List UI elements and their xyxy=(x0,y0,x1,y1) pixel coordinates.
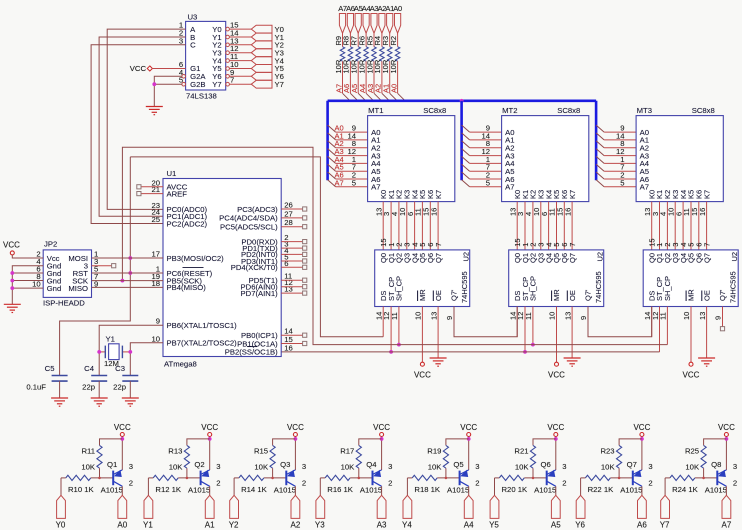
svg-text:A1015: A1015 xyxy=(101,485,123,494)
wire MT2.K5 to U2.Q5 xyxy=(556,202,558,250)
svg-text:R12 1K: R12 1K xyxy=(155,485,182,494)
wire U3.Y2 to port xyxy=(229,44,251,46)
svg-text:SC8x8: SC8x8 xyxy=(692,106,715,115)
svg-text:R10 1K: R10 1K xyxy=(68,485,95,494)
power VCC (cell 5) xyxy=(547,423,564,437)
svg-text:10: 10 xyxy=(414,312,423,320)
bus entry xyxy=(328,156,336,163)
wire port Y6 to base resistor xyxy=(580,478,582,495)
shift register U2 74HC595 (stage 3) xyxy=(643,250,739,307)
wire R8 to bus xyxy=(349,61,351,93)
svg-text:3: 3 xyxy=(475,462,479,471)
wire MT1.K4 to U2.Q4 xyxy=(414,202,416,250)
wire MT2.K2 to U2.Q2 xyxy=(532,202,534,250)
svg-text:Y7: Y7 xyxy=(275,80,284,89)
power VCC (cell 1) xyxy=(201,423,218,437)
svg-text:VCC: VCC xyxy=(3,241,20,250)
wire U2.DS down (stage 1) xyxy=(382,307,384,337)
svg-text:10: 10 xyxy=(682,312,691,320)
wire JP2.SCK to U1.PB5 xyxy=(92,280,164,282)
svg-text:A2: A2 xyxy=(291,521,301,530)
wire MT2.K4 to U2.Q4 xyxy=(548,202,550,250)
junction xyxy=(294,437,298,441)
wire U3.Y3 to port xyxy=(229,52,251,54)
svg-text:PC5(ADC5/SCL): PC5(ADC5/SCL) xyxy=(220,223,278,232)
svg-text:MISO: MISO xyxy=(68,284,88,293)
wire U3.B to U1.PC1 xyxy=(99,37,186,216)
stub U1 pin 27 no-connect xyxy=(281,217,302,219)
wire to MT2.A0 xyxy=(470,131,502,133)
wire to MT1.A4 xyxy=(336,162,368,164)
resistor R8 10R xyxy=(342,33,353,73)
svg-text:Y1: Y1 xyxy=(106,335,115,344)
svg-text:9: 9 xyxy=(714,316,723,320)
wire U2.ST_CP down (stage 1) xyxy=(390,307,392,352)
bus entry xyxy=(328,180,336,187)
transistor Q4 A1015 xyxy=(360,460,392,494)
svg-text:A1015: A1015 xyxy=(705,485,727,494)
svg-text:PB6(XTAL1/TOSC1): PB6(XTAL1/TOSC1) xyxy=(167,321,238,330)
power VCC (stage 3) xyxy=(683,362,700,380)
wire U3.Y7 to port xyxy=(229,83,251,85)
svg-text:2: 2 xyxy=(562,479,566,488)
wire MT3.K5 to U2.Q5 xyxy=(690,202,692,250)
svg-text:VCC: VCC xyxy=(373,423,390,432)
junction ST_CP line stage2 xyxy=(523,350,527,354)
svg-text:VCC: VCC xyxy=(718,423,735,432)
svg-text:22p: 22p xyxy=(82,383,95,392)
ground (stage 3) xyxy=(698,358,715,366)
transistor Q8 A1015 xyxy=(705,460,737,494)
junction xyxy=(208,437,212,441)
svg-text:9: 9 xyxy=(445,316,454,320)
port A5 (top) xyxy=(355,14,361,34)
bus entry xyxy=(596,156,604,163)
svg-text:OE: OE xyxy=(434,290,443,301)
svg-text:MT3: MT3 xyxy=(637,106,652,115)
stub U1 pin 28 no-connect xyxy=(281,226,302,228)
port A0 (bottom) xyxy=(117,495,127,529)
wire Q7' stage1 to DS stage2 xyxy=(454,307,517,337)
svg-text:Q7: Q7 xyxy=(434,253,443,263)
svg-text:A1015: A1015 xyxy=(447,485,469,494)
capacitor C3 22p xyxy=(113,364,138,392)
junction xyxy=(121,279,125,283)
wire port Y3 to base resistor xyxy=(319,478,321,495)
wire MOSI/DS loop (PB3 to DS line) xyxy=(130,157,383,337)
bus entry xyxy=(328,125,336,132)
wire collector to port A4 xyxy=(468,486,470,495)
svg-text:PC4(ADC4/SDA): PC4(ADC4/SDA) xyxy=(219,214,278,223)
junction xyxy=(128,350,132,354)
resistor R14 1K xyxy=(234,475,286,494)
wire SCK/SH_CP loop (PB5 to shift clock line) xyxy=(122,147,667,344)
svg-text:A4: A4 xyxy=(464,521,474,530)
svg-text:A0: A0 xyxy=(393,4,402,13)
svg-text:10K: 10K xyxy=(254,463,269,472)
svg-text:Y7: Y7 xyxy=(212,80,221,89)
stub JP2 pin3 no-connect xyxy=(92,265,112,267)
bus A0..A7 (horizontal) xyxy=(328,100,596,103)
svg-text:R2: R2 xyxy=(389,36,398,46)
svg-text:U2: U2 xyxy=(596,252,605,262)
wire MT3.K1 to U2.Q1 xyxy=(659,202,661,250)
bus entry xyxy=(343,93,351,101)
wire U2.MR to VCC (stage 1) xyxy=(421,307,423,363)
svg-text:A0: A0 xyxy=(389,84,398,93)
port A6 (top) xyxy=(347,14,353,34)
power VCC (cell 7) xyxy=(718,423,735,437)
wire MT1.K6 to U2.Q6 xyxy=(429,202,431,250)
svg-text:PC3(ADC3): PC3(ADC3) xyxy=(237,205,278,214)
wire port Y4 to base resistor xyxy=(406,478,408,495)
wire collector to port A2 xyxy=(294,486,296,495)
junction xyxy=(554,437,558,441)
port Y4 (bottom) xyxy=(402,495,412,529)
svg-text:10K: 10K xyxy=(169,463,184,472)
svg-text:5: 5 xyxy=(620,178,624,187)
svg-text:Q7': Q7' xyxy=(718,289,727,301)
wire U2.OE to ground (stage 1) xyxy=(437,307,439,359)
crystal Y1 12M xyxy=(99,335,130,369)
port A1 (bottom) xyxy=(205,495,215,529)
svg-text:G2B: G2B xyxy=(190,80,205,89)
svg-text:3: 3 xyxy=(388,462,392,471)
resistor R25 10K xyxy=(685,439,726,478)
wire port Y1 to base resistor xyxy=(147,478,149,495)
svg-text:28: 28 xyxy=(284,218,293,227)
junction xyxy=(120,437,124,441)
svg-text:PB2(SS/OC1B): PB2(SS/OC1B) xyxy=(225,348,278,357)
svg-text:A1015: A1015 xyxy=(274,485,296,494)
wire to MT2.A2 xyxy=(470,147,502,149)
pin numbers U2 top (stage 1) xyxy=(379,238,443,246)
svg-text:R17: R17 xyxy=(340,447,354,456)
svg-text:A1: A1 xyxy=(205,521,215,530)
svg-text:0.1uF: 0.1uF xyxy=(26,383,46,392)
port Y0 xyxy=(251,25,284,34)
svg-text:74HC595: 74HC595 xyxy=(460,271,469,303)
wire C5 to ground xyxy=(59,381,61,398)
wire U3.Y5 to port xyxy=(229,68,251,70)
ground (stage 2) xyxy=(564,358,581,366)
wire U2.DS down (stage 2) xyxy=(516,307,518,337)
svg-text:A7: A7 xyxy=(722,521,732,530)
bus entry xyxy=(328,141,336,148)
svg-text:VCC: VCC xyxy=(287,423,304,432)
resistor R7 10R xyxy=(350,33,361,73)
wire to MT1.A5 xyxy=(336,170,368,172)
wire VCC rail (cell 6) xyxy=(641,437,643,471)
svg-text:Y3: Y3 xyxy=(315,521,325,530)
svg-text:C4: C4 xyxy=(84,364,95,373)
pin numbers U2 bottom (stage 2) xyxy=(508,312,588,320)
wire VCC rail (cell 0) xyxy=(121,437,123,471)
junction xyxy=(467,437,471,441)
stub U1 pin 6 no-connect xyxy=(281,266,302,268)
svg-text:R16 1K: R16 1K xyxy=(327,485,354,494)
wire Q7' stage3 to no-connect xyxy=(722,307,724,327)
svg-text:C3: C3 xyxy=(115,364,125,373)
svg-text:Q8: Q8 xyxy=(711,460,721,469)
bus entry xyxy=(596,180,604,187)
wire U2.SH_CP down (stage 2) xyxy=(532,307,534,345)
resistor R23 10K xyxy=(600,439,641,478)
resistor R4 10R xyxy=(373,33,384,73)
wire VCC rail (cell 5) xyxy=(555,437,557,471)
shift register U2 74HC595 (stage 2) xyxy=(509,250,605,307)
svg-text:PD4(XCK/T0): PD4(XCK/T0) xyxy=(231,263,278,272)
port Y7 xyxy=(251,80,284,89)
svg-text:13: 13 xyxy=(563,312,572,320)
port Y4 xyxy=(251,56,284,65)
wire to MT1.A1 xyxy=(336,139,368,141)
LED matrix MT1 SC8x8 xyxy=(347,106,454,202)
bus entry xyxy=(462,141,470,148)
svg-text:22p: 22p xyxy=(113,383,126,392)
pin numbers U2 top (stage 3) xyxy=(647,238,711,246)
port Y0 (bottom) xyxy=(56,495,66,529)
wire MT1.K0 to U2.Q0 xyxy=(382,202,384,250)
port Y2 (bottom) xyxy=(229,495,239,529)
svg-text:U2: U2 xyxy=(462,252,471,262)
transistor Q3 A1015 xyxy=(274,460,306,494)
svg-text:VCC: VCC xyxy=(114,423,131,432)
svg-text:2: 2 xyxy=(648,479,652,488)
bus entry xyxy=(462,133,470,140)
svg-text:U3: U3 xyxy=(188,13,198,22)
wire U2.OE to ground (stage 2) xyxy=(571,307,573,359)
svg-text:26: 26 xyxy=(284,201,293,210)
svg-text:OE: OE xyxy=(568,290,577,301)
no-connect square xyxy=(720,327,724,331)
wire to MT3.A3 xyxy=(604,155,636,157)
stub U1 pin 15 no-connect xyxy=(281,343,302,345)
svg-text:Y6: Y6 xyxy=(575,521,585,530)
wire to MT3.A7 xyxy=(604,186,636,188)
svg-text:MR: MR xyxy=(687,289,696,301)
resistor R18 1K xyxy=(407,475,459,494)
bus entry xyxy=(596,164,604,171)
svg-text:3: 3 xyxy=(129,462,133,471)
port A1 (top) xyxy=(387,14,393,34)
wire U3.A to U1.PC0 xyxy=(107,29,185,209)
svg-text:SC8x8: SC8x8 xyxy=(557,106,580,115)
wire collector to port A5 xyxy=(555,486,557,495)
wire collector to port A6 xyxy=(641,486,643,495)
wire to MT2.A6 xyxy=(470,178,502,180)
power VCC (cell 2) xyxy=(287,423,304,437)
port A2 (top) xyxy=(379,14,385,34)
wire to MT3.A2 xyxy=(604,147,636,149)
stub U1 pin 14 no-connect xyxy=(281,334,302,336)
port Y3 (bottom) xyxy=(315,495,325,529)
pin numbers U2 bottom (stage 1) xyxy=(374,312,454,320)
net labels A0..A7 at MT1 xyxy=(335,124,344,188)
svg-text:OE: OE xyxy=(702,290,711,301)
svg-text:R24 1K: R24 1K xyxy=(672,485,699,494)
svg-text:U1: U1 xyxy=(167,169,177,178)
wire MT2.K0 to U2.Q0 xyxy=(516,202,518,250)
svg-text:PD7(AIN1): PD7(AIN1) xyxy=(241,289,279,298)
wire JP2.MISO to U1.PB4 xyxy=(92,286,164,288)
resistor R16 1K xyxy=(320,475,372,494)
svg-text:Q4: Q4 xyxy=(366,460,377,469)
svg-text:AREF: AREF xyxy=(167,189,188,198)
ground below C5 xyxy=(51,398,68,406)
junction xyxy=(725,437,729,441)
port A3 (top) xyxy=(371,14,377,34)
wire U3.Y1 to port xyxy=(229,36,251,38)
resistor R13 10K xyxy=(168,439,209,478)
svg-text:Q2: Q2 xyxy=(194,460,204,469)
svg-text:7: 7 xyxy=(702,243,711,247)
wire R5 to bus xyxy=(373,61,375,93)
port A0 (top) xyxy=(395,14,401,34)
bus entry xyxy=(358,93,366,101)
wire U3.Y4 to port xyxy=(229,60,251,62)
wire U1.PB6 to crystal xyxy=(99,325,163,375)
resistor R10 1K xyxy=(61,475,113,494)
LED matrix MT2 SC8x8 xyxy=(481,106,588,202)
wire MT2.K1 to U2.Q1 xyxy=(524,202,526,250)
svg-text:10K: 10K xyxy=(81,463,96,472)
wire MT2.K7 to U2.Q7 xyxy=(571,202,573,250)
bus segment (vertical, stage 2) xyxy=(460,101,463,181)
svg-text:A7: A7 xyxy=(335,178,344,187)
svg-text:5: 5 xyxy=(486,178,490,187)
wire C3 to ground xyxy=(129,381,131,398)
svg-text:MR: MR xyxy=(552,289,561,301)
svg-text:A0: A0 xyxy=(117,521,127,530)
svg-text:VCC: VCC xyxy=(460,423,477,432)
wire port Y5 to base resistor xyxy=(494,478,496,495)
bus entry xyxy=(328,149,336,156)
wire port Y0 to base resistor xyxy=(60,478,62,495)
svg-text:13: 13 xyxy=(698,312,707,320)
wire Q7' stage2 to DS stage3 xyxy=(588,307,652,337)
transistor Q7 A1015 xyxy=(620,460,652,494)
wire port Y7 to base resistor xyxy=(664,478,666,495)
power VCC at JP2 xyxy=(3,241,20,255)
svg-text:R20 1K: R20 1K xyxy=(502,485,529,494)
svg-text:16: 16 xyxy=(563,208,572,216)
wire U2.ST_CP down (stage 3) xyxy=(659,307,661,352)
svg-text:SH_CP: SH_CP xyxy=(529,276,538,301)
wire R9 to bus xyxy=(342,61,344,93)
wire R4 to bus xyxy=(381,61,383,93)
wire collector to port A0 xyxy=(121,486,123,495)
ground below C4 xyxy=(91,398,108,406)
junction xyxy=(128,271,132,275)
svg-text:ATmega8: ATmega8 xyxy=(164,360,197,369)
bus entry xyxy=(596,141,604,148)
svg-text:Q7': Q7' xyxy=(450,289,459,301)
svg-text:R25: R25 xyxy=(685,447,699,456)
svg-text:9: 9 xyxy=(156,317,160,326)
svg-text:Q7: Q7 xyxy=(568,253,577,263)
wire U3.Y6 to port xyxy=(229,75,251,77)
transistor Q1 A1015 xyxy=(101,460,133,494)
resistor R2 10R xyxy=(389,33,400,73)
svg-text:2: 2 xyxy=(129,479,133,488)
wire MT1.K3 to U2.Q3 xyxy=(406,202,408,250)
stub U1 pin 26 no-connect xyxy=(281,208,302,210)
resistor R24 1K xyxy=(665,475,717,494)
pin numbers U2 bottom (stage 3) xyxy=(643,312,723,320)
stub U1 pin 2 no-connect xyxy=(281,241,302,243)
bus entry xyxy=(596,172,604,179)
wire to MT3.A4 xyxy=(604,162,636,164)
wire U2.SH_CP down (stage 3) xyxy=(666,307,668,345)
svg-text:A3: A3 xyxy=(377,521,387,530)
power VCC (cell 3) xyxy=(373,423,390,437)
svg-text:10K: 10K xyxy=(685,463,700,472)
wire VCC rail (cell 1) xyxy=(209,437,211,471)
wire MT1.K5 to U2.Q5 xyxy=(421,202,423,250)
svg-text:Q5: Q5 xyxy=(453,460,463,469)
wire to MT3.A1 xyxy=(604,139,636,141)
wire MT3.K2 to U2.Q2 xyxy=(666,202,668,250)
svg-text:10K: 10K xyxy=(601,463,616,472)
stub U1 pin 5 no-connect xyxy=(281,260,302,262)
bus segment (vertical, stage 1) xyxy=(326,101,329,181)
svg-text:16: 16 xyxy=(429,208,438,216)
wire U1.PB7 to crystal xyxy=(130,343,163,376)
svg-text:VCC: VCC xyxy=(130,64,147,73)
stub U1.AREF no-connect xyxy=(141,193,163,195)
bus entry xyxy=(462,125,470,132)
svg-text:3: 3 xyxy=(562,462,566,471)
pin numbers MT1 bottom xyxy=(374,208,438,216)
bus entry xyxy=(328,164,336,171)
wire JP2.RST to U1.PC6 xyxy=(92,272,164,274)
bus entry xyxy=(596,125,604,132)
port Y1 xyxy=(251,33,284,42)
resistor R21 10K xyxy=(514,439,555,478)
svg-text:VCC: VCC xyxy=(547,423,564,432)
svg-text:Q7: Q7 xyxy=(627,460,637,469)
svg-text:Y2: Y2 xyxy=(229,521,239,530)
svg-text:VCC: VCC xyxy=(633,423,650,432)
port Y2 xyxy=(251,41,284,50)
bus entry xyxy=(462,156,470,163)
port Y5 xyxy=(251,64,284,73)
pin numbers MT3 bottom xyxy=(643,208,707,216)
wire JP2 ground pins xyxy=(12,266,43,305)
svg-text:VCC: VCC xyxy=(201,423,218,432)
bus entry xyxy=(390,93,398,101)
svg-text:VCC: VCC xyxy=(683,371,700,380)
capacitor C4 22p xyxy=(82,364,107,392)
svg-text:R11: R11 xyxy=(81,447,95,456)
wire to MT3.A6 xyxy=(604,178,636,180)
svg-text:Y1: Y1 xyxy=(143,521,153,530)
wire to MT3.A5 xyxy=(604,170,636,172)
wire U3.Y0 to port xyxy=(229,28,251,30)
svg-text:R19: R19 xyxy=(427,447,441,456)
pin numbers U2 top (stage 2) xyxy=(513,238,577,246)
port A2 (bottom) xyxy=(291,495,301,529)
wire U2.SH_CP down (stage 1) xyxy=(398,307,400,345)
svg-text:3: 3 xyxy=(216,462,220,471)
port A7 (top) xyxy=(339,14,345,34)
svg-text:10: 10 xyxy=(151,334,160,343)
svg-text:R23: R23 xyxy=(600,447,614,456)
wire VCC to U3.G1 xyxy=(152,68,186,70)
wire MT3.K7 to U2.Q7 xyxy=(706,202,708,250)
wire U2.MR to VCC (stage 3) xyxy=(690,307,692,363)
